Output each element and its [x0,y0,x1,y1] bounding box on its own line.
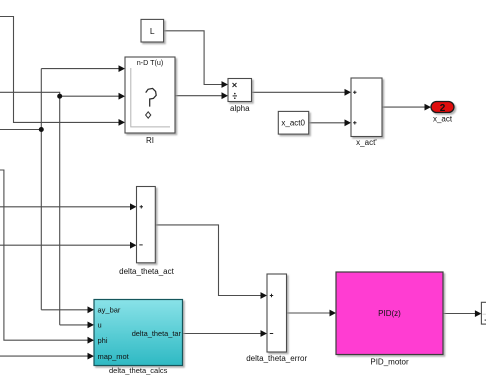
svg-text:PID_motor: PID_motor [370,358,409,367]
svg-text:x_act: x_act [433,114,453,123]
svg-text:RI: RI [146,136,154,145]
svg-text:map_mot: map_mot [98,352,130,361]
svg-text:phi: phi [98,336,108,345]
svg-text:delta_theta_error: delta_theta_error [246,354,307,363]
svg-text:delta_theta_act: delta_theta_act [119,267,174,276]
svg-text:n-D T(u): n-D T(u) [137,58,164,67]
svg-text:L: L [150,26,155,36]
svg-text:x_act0: x_act0 [281,119,305,128]
svg-text:2: 2 [440,103,446,114]
svg-text:u: u [98,321,102,330]
svg-text:delta_theta_calcs: delta_theta_calcs [109,366,168,375]
svg-text:delta_theta_tar: delta_theta_tar [132,329,182,338]
svg-text:PID(z): PID(z) [378,309,401,318]
svg-text:x_act': x_act' [356,138,377,147]
svg-text:alpha: alpha [230,104,250,113]
svg-text:ay_bar: ay_bar [98,306,121,315]
